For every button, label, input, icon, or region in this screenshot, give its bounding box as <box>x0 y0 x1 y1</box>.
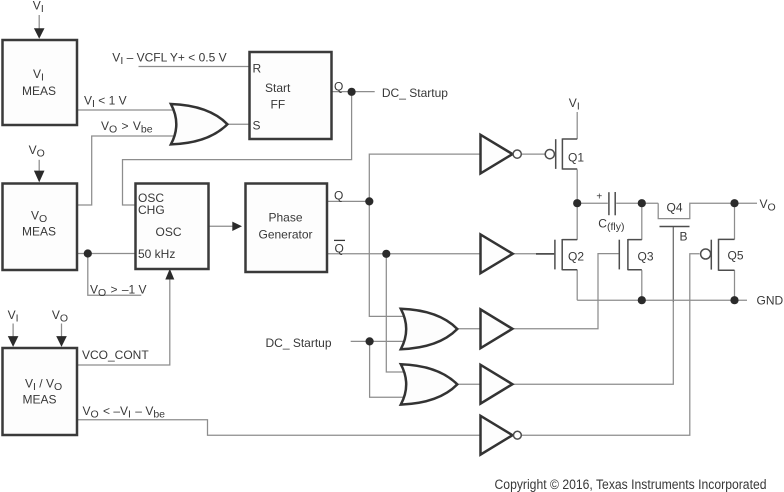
buffer B4 triangle (drives Q4) <box>481 365 513 404</box>
arrowhead V_O into V_I/V_O MEAS <box>56 336 67 347</box>
svg-text:+: + <box>596 191 602 202</box>
svg-text:MEAS: MEAS <box>22 225 56 239</box>
wire Q bus up to inverter N1 input <box>369 154 480 201</box>
wire stub V_O > -1 V <box>88 254 142 296</box>
wire Phase Generator Qbar output to buffer B2 input <box>327 253 481 255</box>
wire Q3 source down to GND rail <box>641 270 643 300</box>
svg-text:OSC: OSC <box>156 225 182 239</box>
transistor Q4 (NMOS, horizontal) gate bar <box>660 226 690 228</box>
node V_O output junction <box>730 199 738 207</box>
overbar of Qbar <box>334 239 345 241</box>
arrowhead V_I into V_I/V_O MEAS <box>8 336 19 347</box>
wire V_O > V_be : V_O MEAS to OR gate G1 bottom input <box>77 136 178 205</box>
capacitor C(fly) left plate <box>608 192 610 215</box>
transistor Q3 (NMOS) gate bar <box>618 240 620 270</box>
svg-text:Q2: Q2 <box>568 250 584 264</box>
svg-text:DC_ Startup: DC_ Startup <box>266 336 332 350</box>
capacitor C(fly) right plate <box>614 192 616 215</box>
wire V_O input arrow stem into V_I/V_O MEAS <box>61 324 63 337</box>
svg-text:Q: Q <box>334 189 343 203</box>
wire OR gate G3 output to buffer B4 input <box>455 383 481 385</box>
arrowhead V_I into V_I MEAS <box>34 28 45 39</box>
node DC_Startup junction at Start FF Q <box>348 88 356 96</box>
node GND junction under Q5 <box>730 296 738 304</box>
svg-text:Q: Q <box>334 80 343 94</box>
node GND junction under Q3 <box>638 296 646 304</box>
svg-text:VCO_CONT: VCO_CONT <box>82 348 149 362</box>
svg-text:Q3: Q3 <box>638 250 654 264</box>
buffer B3 triangle (drives Q3) <box>481 309 513 348</box>
wire Q5 source down to GND rail <box>734 270 736 300</box>
svg-text:R: R <box>253 62 262 76</box>
wire DC_ Startup input to OR gate G2 bottom input <box>351 340 408 342</box>
wire Phase Generator Q output to node <box>327 200 369 202</box>
svg-text:Q5: Q5 <box>728 249 744 263</box>
block V_O MEAS <box>3 184 78 271</box>
node capacitor right junction <box>638 199 646 207</box>
wire VCO_CONT from V_I/V_O MEAS to OSC bottom <box>78 277 170 365</box>
node Qbar output junction <box>382 250 390 258</box>
wire inverter N2 output to Q5 gate <box>522 254 700 435</box>
or-gate G3 (Qbar + DC_Startup) <box>401 364 458 404</box>
wire Q2 source down to GND rail <box>576 270 578 301</box>
inverter N1 triangle (drives Q1) <box>481 135 513 174</box>
transistor Q5 gate bubble <box>701 249 711 259</box>
svg-text:Start: Start <box>265 81 291 95</box>
wire OR gate G1 output to Start FF S input <box>227 123 250 125</box>
transistor Q1 channel and stubs <box>562 138 577 169</box>
wire V_I stub down to Q1 drain <box>576 112 578 139</box>
node Q output junction <box>365 197 373 205</box>
wire DC_ Startup branch down to OR gate G3 bottom input <box>370 341 408 397</box>
inverter N2 output bubble <box>514 431 522 439</box>
svg-text:Q4: Q4 <box>667 200 683 214</box>
wire V_I < 1 V : V_I MEAS to OR gate G1 top input <box>77 109 178 111</box>
node A capacitor left junction <box>573 199 581 207</box>
wire V_O input arrow stem into V_O MEAS <box>38 160 40 171</box>
wire node A down to Q2 drain <box>576 203 578 240</box>
transistor Q2 channel and stubs <box>562 239 577 270</box>
buffer B2 triangle (drives Q2) <box>481 234 513 273</box>
wire buffer B3 output to Q3 gate <box>512 254 619 329</box>
wire feedback from Q node to OSC CHG input <box>123 92 352 205</box>
wire V_O < -V_I - V_be : V_I/V_O MEAS to inverter N2 input <box>78 420 480 435</box>
svg-text:Q: Q <box>335 242 344 256</box>
svg-text:FF: FF <box>271 98 286 112</box>
node DC_ Startup lower junction <box>366 337 374 345</box>
block Start FF <box>250 52 332 139</box>
svg-text:CHG: CHG <box>138 203 165 217</box>
wire buffer B4 output to Q4 gate <box>512 302 673 384</box>
or-gate G2 (Q + DC_Startup) <box>401 309 458 349</box>
node V_O MEAS output junction <box>84 249 92 257</box>
transistor Q1 (PMOS) gate bar <box>555 139 557 169</box>
arrowhead V_O into V_O MEAS <box>34 171 45 183</box>
inverter N1 output bubble <box>513 150 521 158</box>
wire Q4 source-drain path <box>658 203 734 218</box>
svg-text:B: B <box>680 230 688 244</box>
svg-text:DC_ Startup: DC_ Startup <box>382 86 448 100</box>
svg-text:50 kHz: 50 kHz <box>138 247 175 261</box>
transistor Q1 gate bubble <box>545 150 554 159</box>
wire V_O node to V_O label <box>735 202 758 204</box>
transistor Q5 channel and stubs <box>719 239 735 271</box>
svg-text:MEAS: MEAS <box>22 84 56 98</box>
svg-text:GND: GND <box>757 294 784 308</box>
arrowhead VCO_CONT into OSC bottom <box>165 269 174 280</box>
block V_I/V_O MEAS <box>3 348 78 435</box>
svg-text:Q1: Q1 <box>568 151 584 165</box>
wire GND rail <box>577 299 747 301</box>
wire buffer B2 output to Q2 gate <box>513 253 537 255</box>
block Phase Generator <box>246 184 328 273</box>
or-gate G1 (sets Start FF) <box>171 104 228 144</box>
wire capacitor right plate to node B rail <box>616 202 658 204</box>
wire OR gate G2 output to buffer B3 input <box>455 328 481 330</box>
wire OSC output to Phase Generator <box>209 225 235 227</box>
wire Start FF Q output to DC_ Startup label <box>332 91 375 93</box>
wire Q1 source down to flying-cap node <box>576 169 578 203</box>
transistor Q3 channel and stubs <box>628 239 642 270</box>
wire Q3 drain up to capacitor right node <box>641 203 643 240</box>
wire node A rail to capacitor left plate <box>577 202 608 204</box>
wire Q bus down to OR gate G2 top input <box>369 201 408 316</box>
block V_I MEAS <box>3 40 78 125</box>
wire V_I input arrow stem into V_I/V_O MEAS <box>12 324 14 337</box>
transistor Q5 (PMOS) gate bar <box>710 240 712 270</box>
wire inverter N1 output to Q1 gate bubble <box>522 153 545 155</box>
wire V_I input arrow stem into V_I MEAS <box>38 15 40 29</box>
wire Qbar bus down to OR gate G3 top input <box>386 254 408 372</box>
svg-text:Copyright © 2016, Texas Instru: Copyright © 2016, Texas Instruments Inco… <box>495 477 767 492</box>
svg-text:Generator: Generator <box>259 228 313 242</box>
block OSC 50 kHz <box>136 184 209 270</box>
svg-text:S: S <box>253 119 261 133</box>
arrowhead OSC output into Phase Generator <box>232 222 242 231</box>
wire Q5 drain down from V_O node <box>734 203 736 239</box>
svg-text:MEAS: MEAS <box>23 393 57 407</box>
svg-text:Phase: Phase <box>269 211 303 225</box>
transistor Q2 (NMOS) gate bar <box>554 240 556 270</box>
wire R input to Start FF <box>139 66 251 68</box>
wire V_O MEAS output to OSC 50 kHz input <box>77 253 136 255</box>
inverter N2 triangle (drives Q5) <box>481 416 513 455</box>
